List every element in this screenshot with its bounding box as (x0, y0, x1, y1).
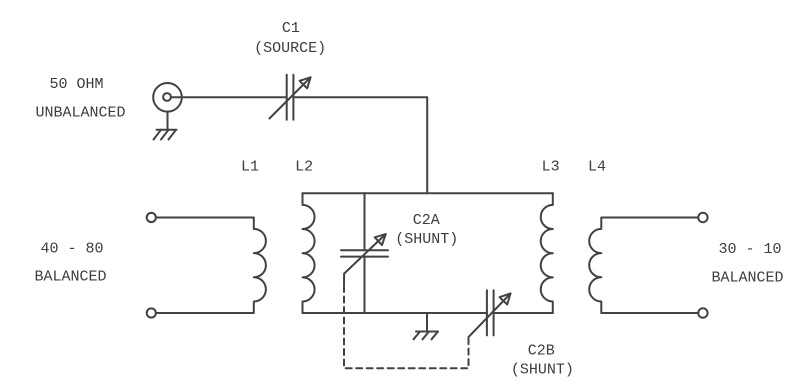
svg-text:(SOURCE): (SOURCE) (254, 40, 326, 57)
svg-text:40 - 80: 40 - 80 (40, 240, 103, 257)
svg-text:L3: L3 (542, 159, 560, 176)
svg-text:BALANCED: BALANCED (711, 269, 783, 286)
svg-text:50 OHM: 50 OHM (49, 76, 103, 93)
svg-text:UNBALANCED: UNBALANCED (35, 104, 125, 121)
svg-text:L1: L1 (241, 159, 259, 176)
svg-text:(SHUNT): (SHUNT) (395, 231, 458, 248)
svg-text:C2B: C2B (528, 342, 555, 359)
svg-text:C1: C1 (282, 20, 300, 37)
svg-text:L4: L4 (588, 159, 606, 176)
svg-text:L2: L2 (295, 159, 313, 176)
svg-text:C2A: C2A (413, 212, 440, 229)
svg-text:30 - 10: 30 - 10 (718, 241, 781, 258)
svg-text:BALANCED: BALANCED (34, 268, 106, 285)
svg-text:(SHUNT): (SHUNT) (511, 361, 574, 378)
